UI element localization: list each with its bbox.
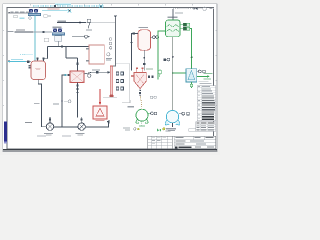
green instrument: [158, 70, 162, 74]
air cooler E-102 fan 2: [58, 29, 62, 32]
bottom frame thick line: [3, 149, 217, 151]
heater inlet cluster: [65, 74, 67, 76]
small fittings near bundle: [44, 15, 48, 18]
wire: inlet line to E-101: [8, 12, 30, 14]
cyan label: [11, 59, 23, 60]
level gauge marks left of vessel: [29, 65, 31, 67]
right instruments: [197, 70, 198, 72]
wire: top riser: [172, 9, 174, 20]
salmon label over branch: [48, 9, 60, 10]
wire: overhead line: [173, 8, 202, 10]
pump P-101: [46, 123, 53, 130]
air cooler E-102 label: [53, 27, 62, 28]
faint labels above title block: [37, 135, 46, 136]
right part: [173, 136, 175, 148]
right instrument: [107, 53, 110, 56]
wire: V-102 left feed elbow: [132, 34, 139, 71]
wire: V-101 bottom outlet: [38, 80, 46, 127]
P-101 suction riser: [49, 117, 51, 123]
wire: inlet line to E-102: [15, 31, 33, 33]
pump label below: [76, 133, 85, 134]
label below: [175, 12, 183, 13]
inner frame: [7, 7, 214, 148]
instrument circle: [203, 7, 206, 10]
side taps on drop: [164, 58, 166, 60]
wire: drop to V-101: [47, 47, 49, 59]
heater outlet instrument: [88, 74, 91, 77]
off-page flag on long drop: [114, 15, 117, 18]
border tick marks: [3, 4, 217, 152]
skid boundary: [129, 64, 131, 103]
bottom marks: [139, 124, 145, 127]
gauge pair 2: [116, 80, 119, 83]
off-page connector flag A: [8, 12, 10, 14]
right instrument: [148, 112, 150, 114]
bottom line + label: [172, 123, 174, 127]
note above table: [199, 80, 209, 83]
outlet arrow: [197, 75, 208, 77]
bottom cluster valves: [148, 75, 150, 77]
cyan utility dashed header: [33, 5, 104, 7]
valve on riser: [76, 63, 78, 65]
red feed arrow: [99, 89, 101, 103]
wire: x62 drain line: [62, 75, 65, 127]
right instruments: [179, 113, 182, 115]
air cooler E-101 fan 2: [34, 9, 38, 13]
wire: teal riser E-101 to V-101: [34, 16, 36, 61]
V-101 top risers + valves: [37, 59, 39, 62]
air cooler E-102 tube bundle: [52, 33, 65, 36]
bowtie valve: [194, 8, 198, 10]
pump P-101 label: [25, 122, 32, 123]
bottom marks: [139, 90, 141, 92]
row text bars: [202, 85, 210, 88]
wire: heater bottom train: [77, 83, 79, 118]
revision grid: [148, 138, 172, 140]
gray dashes: [210, 8, 212, 9]
V-101 tag text: [35, 67, 41, 70]
cyan header end symbol X: [99, 4, 103, 7]
wire: heater to bridle: [84, 72, 110, 74]
V-102 right instruments: [151, 36, 153, 38]
flow element diamond: [79, 21, 82, 24]
instrument pair right of vessel: [150, 96, 153, 99]
label on downcomer: [34, 103, 40, 104]
air cooler E-101 tube bundle: [28, 13, 41, 16]
pump P-103: [136, 109, 148, 121]
wire: V-102 bottom outlet: [143, 50, 145, 70]
air cooler E-102 fan 1: [53, 29, 57, 32]
label Ca (cyan): [20, 17, 25, 19]
wire: green right drop: [190, 29, 192, 69]
end instrument: [85, 35, 88, 38]
wire: line y36.5: [72, 36, 84, 38]
vessel B-101: [89, 45, 104, 64]
cyan branch end symbol: [68, 9, 71, 12]
small box left of plenum: [44, 38, 49, 41]
off-page flag: [8, 60, 10, 62]
cyan dashed line above: [20, 53, 33, 55]
wire: green left loop: [158, 31, 166, 80]
vessel V-103: [134, 73, 146, 89]
line label text: [11, 10, 14, 13]
instrument bubbles column: [109, 38, 112, 41]
right valve row 1: [180, 24, 183, 26]
small pair box left of mini table: [189, 129, 196, 132]
wire: column bottom drop to pump: [172, 37, 174, 111]
top risers: [136, 69, 138, 73]
wire: drop to heater path: [65, 47, 67, 59]
dotted drop to pump: [141, 97, 142, 109]
three-way valve green/yellow: [157, 129, 161, 132]
right valve row 2: [180, 28, 183, 30]
air cooler E-101 fan 1: [29, 9, 33, 13]
vessel V-102: [138, 30, 151, 50]
left nozzle: [131, 75, 133, 77]
rev cell text: [152, 136, 155, 139]
valve on line: [42, 31, 44, 33]
filter F-101: [186, 69, 197, 82]
outer border: [3, 4, 217, 152]
air cooler E-101 label: [30, 7, 40, 8]
company logo row: [175, 146, 177, 148]
instrument circle near bundle: [29, 17, 31, 19]
wire: header y46.5: [48, 46, 89, 48]
wire: E-102 outlet down: [57, 41, 59, 46]
vessel V-101: [31, 61, 46, 80]
pump P-102: [78, 123, 85, 130]
pump label below: [44, 133, 53, 134]
small connector box: [14, 15, 18, 18]
wire: discharge header y127: [54, 126, 78, 128]
instrument near x62: [68, 100, 71, 103]
wire: line y22.5: [57, 22, 86, 24]
sheet background: [0, 0, 220, 155]
wire: filter bottom: [190, 82, 192, 88]
left margin vertical text: [2, 86, 3, 96]
pump P-104: [166, 110, 178, 122]
controller tail: [88, 22, 89, 28]
diamond on x62: [61, 100, 64, 103]
wire: cyan inlet to V-101: [8, 61, 26, 63]
label: [7, 31, 13, 32]
nozzle marks: [86, 48, 89, 50]
wire: cyan branch: [42, 10, 68, 12]
P-102 suction riser: [81, 117, 83, 123]
mixer M-101: [93, 106, 107, 119]
inlet valve: [27, 60, 30, 63]
gauge pair 3: [116, 87, 119, 90]
valve on header: [61, 45, 63, 47]
E-102 plenum box: [55, 36, 62, 42]
wire: long vertical x115.5: [113, 18, 116, 66]
wire: to mixer: [85, 122, 108, 127]
green branch to filter: [173, 72, 186, 74]
gray skid lines: [103, 97, 117, 99]
column T-101: [166, 20, 181, 37]
bridle standpipe: [110, 66, 113, 95]
navy sidebar label: [4, 122, 7, 142]
controller box: [87, 19, 90, 22]
heater H-101: [70, 71, 84, 83]
gauge pair 1: [116, 72, 119, 75]
